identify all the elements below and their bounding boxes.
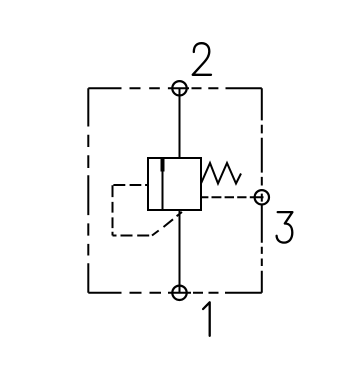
label 3 <box>277 212 293 243</box>
port 2 circle <box>172 81 186 95</box>
label 2 <box>193 43 211 75</box>
port 1 circle <box>172 286 186 300</box>
enclosure bottom edge (dashed) <box>88 292 261 294</box>
valve piston head (thick nub) <box>161 158 165 172</box>
valve body <box>148 158 201 210</box>
spring <box>201 163 241 184</box>
label 1 <box>203 302 210 336</box>
wire valve body to port 1 <box>179 210 181 293</box>
pilot loop left vertical (dashed) <box>112 185 114 235</box>
enclosure top edge (dashed) <box>88 87 261 89</box>
valve piston line <box>162 158 164 210</box>
port 3 circle <box>255 190 269 204</box>
pilot line to port 3 (dashed) <box>201 196 263 198</box>
pilot loop diagonal (dashed) <box>152 212 182 236</box>
enclosure right edge (dashed) <box>261 88 263 292</box>
wire port 2 to valve body <box>179 88 181 158</box>
pilot loop bottom horizontal (dashed) <box>113 235 150 237</box>
pilot loop top horizontal (dashed) <box>113 184 148 186</box>
enclosure left edge (dashed) <box>87 88 89 292</box>
